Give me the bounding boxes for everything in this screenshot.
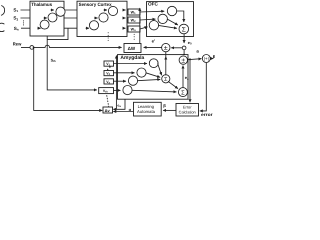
wire a feedback down to error calc <box>189 59 191 102</box>
wire OFC n1 to sum <box>176 11 183 22</box>
wire abs down to error calc <box>200 62 207 111</box>
wire sumA to sumE diagonal <box>168 81 178 88</box>
svg-text:Sensory Cortex: Sensory Cortex <box>79 2 112 7</box>
wire LA to dv alpha <box>113 111 133 113</box>
wire V2 to amygdala n2 <box>114 72 135 74</box>
neuron thalamus n1 <box>56 7 65 16</box>
svg-text:error: error <box>201 112 213 117</box>
svg-text:±: ± <box>164 45 168 52</box>
svg-text:±: ± <box>181 58 185 65</box>
wire amygdala n4 to sumE <box>132 90 177 92</box>
wire dv update up <box>115 56 117 110</box>
arrow into cortex n2 <box>94 17 97 19</box>
abs unit <box>202 55 210 63</box>
svg-text:S2: S2 <box>13 16 18 22</box>
wire dW update up <box>139 8 141 43</box>
arrow into cortex n1 <box>104 9 107 11</box>
arrow into Wn <box>123 27 126 29</box>
svg-text:Vth: Vth <box>103 89 108 94</box>
wire row1 S1 <box>21 9 128 11</box>
svg-text:β: β <box>163 103 166 108</box>
plusminus unit 2 <box>179 56 187 64</box>
svg-text:Σ: Σ <box>182 26 186 33</box>
box learning automata <box>134 102 162 116</box>
arrow into W1 <box>123 9 126 11</box>
junction dot on a line <box>189 58 191 60</box>
svg-text:e0: e0 <box>188 40 192 46</box>
svg-text:E: E <box>213 54 215 59</box>
wire W2 to OFC n2 <box>140 18 155 21</box>
arrow into W2 <box>123 17 126 19</box>
svg-text:Calclation: Calclation <box>179 109 196 114</box>
wire EC to LA beta <box>163 109 176 111</box>
wire Wn to OFC n3 <box>140 27 148 29</box>
wire sumE up to plusminus2 <box>182 66 184 88</box>
svg-text:Thalamus: Thalamus <box>31 2 52 7</box>
svg-text:e′: e′ <box>152 39 156 44</box>
weight box W2 <box>128 17 140 23</box>
wire row2 S2 <box>21 17 128 19</box>
wire OFC n2 to sum <box>167 19 178 25</box>
neuron OFC n1 <box>167 6 176 15</box>
summation OFC <box>179 24 189 34</box>
wire Vn to amygdala n3 <box>114 80 127 82</box>
svg-text:Rew: Rew <box>13 41 22 46</box>
wire Vth to amygdala n4 <box>114 89 121 91</box>
tick between V1 V2 <box>109 67 111 68</box>
neuron OFC n3 <box>149 21 158 30</box>
summation amygdala E <box>178 88 187 97</box>
junction dot on amygdala edge <box>183 54 185 56</box>
svg-text:Sn: Sn <box>14 26 19 32</box>
neuron OFC n2 <box>158 14 167 23</box>
neuron thalamus n2 <box>48 13 57 22</box>
wire amygdala n1 to sumA <box>158 63 162 75</box>
arrowhead on amygdala edge up <box>165 56 167 58</box>
arrow into thalamus n1 <box>51 9 54 11</box>
neuron cortex n3 <box>89 21 98 30</box>
svg-text:V1: V1 <box>106 62 110 67</box>
amygdala box <box>118 55 189 100</box>
wire Rew drop to Delta-v <box>34 47 103 110</box>
box delta v <box>103 107 113 113</box>
arrow into thalamus n3 <box>37 27 40 29</box>
svg-text:OFC: OFC <box>148 2 159 7</box>
node e0 open circle <box>182 46 186 50</box>
wire branch row3 tap <box>47 28 68 39</box>
wire W1 to OFC n1 <box>140 10 164 13</box>
wire node to plusminus1 <box>171 47 182 49</box>
ellipsis under Wn <box>134 34 135 40</box>
weight box Vn <box>104 79 114 84</box>
node Rew open circle <box>30 46 34 50</box>
svg-text:S1: S1 <box>13 7 18 13</box>
wire V1 to amygdala n1 <box>114 63 148 65</box>
cropped glyph left edge top <box>1 6 5 16</box>
svg-text:Wn: Wn <box>131 28 136 32</box>
wire Rew line with hop <box>21 45 122 47</box>
wire row3 Sn <box>21 27 127 29</box>
svg-text:W2: W2 <box>131 19 136 24</box>
neuron thalamus n3 <box>40 20 49 29</box>
arrow into cortex n3 <box>86 27 89 29</box>
wire plusminus2 to abs <box>188 59 202 60</box>
svg-text:V2: V2 <box>106 72 110 77</box>
box error calculation <box>176 104 199 117</box>
wire node down to plusminus2 <box>183 50 185 56</box>
sensory cortex box <box>77 1 127 36</box>
weight box V1 <box>104 61 114 66</box>
neuron amygdala n1 <box>149 59 158 68</box>
dashed Vth to dv <box>107 95 109 106</box>
neuron amygdala n3 <box>128 76 137 85</box>
wire sumA up to plusminus1 <box>165 52 167 76</box>
wire sum down e0 <box>183 34 185 43</box>
svg-text:Vn: Vn <box>106 80 110 85</box>
weight box Wn <box>128 26 140 32</box>
neuron amygdala n2 <box>137 68 146 77</box>
tick between V2 V1 up <box>107 69 109 70</box>
thalamus box <box>30 1 64 36</box>
ellipsis S inputs <box>23 20 24 25</box>
weight box Vth <box>99 88 114 94</box>
neuron cortex n1 <box>108 6 117 15</box>
svg-text:Amygdala: Amygdala <box>120 55 144 61</box>
wire amygdala n2 to sumA <box>146 73 160 78</box>
ellipsis under cortex <box>108 32 109 41</box>
wire thalamus bottom drop <box>47 36 97 90</box>
svg-text:Automata: Automata <box>137 109 156 114</box>
svg-text:W1: W1 <box>131 11 136 16</box>
summation amygdala A <box>162 75 170 83</box>
wire ea into dv <box>113 99 125 109</box>
OFC box <box>147 2 194 37</box>
wire abs output right <box>210 58 213 60</box>
wire amygdala n3 to sumA <box>137 79 160 80</box>
cropped glyph left edge bottom <box>0 23 4 31</box>
svg-text:Σ: Σ <box>181 90 185 96</box>
weight box V2 <box>104 71 114 76</box>
svg-text:Δv: Δv <box>105 108 111 113</box>
wire OFC n3 to sum <box>158 25 177 28</box>
svg-text:Sth: Sth <box>51 58 56 63</box>
plusminus unit 1 <box>162 43 170 51</box>
svg-text:ΔW: ΔW <box>128 46 136 51</box>
neuron amygdala n4 <box>123 86 132 95</box>
deltaW box <box>124 44 141 53</box>
svg-text:|+|: |+| <box>204 56 209 61</box>
svg-text:ea: ea <box>117 104 121 109</box>
wire plusminus1 to dW <box>144 46 162 48</box>
arrow into thalamus n2 <box>44 17 47 19</box>
weight box W1 <box>128 9 140 15</box>
neuron cortex n2 <box>99 13 108 22</box>
